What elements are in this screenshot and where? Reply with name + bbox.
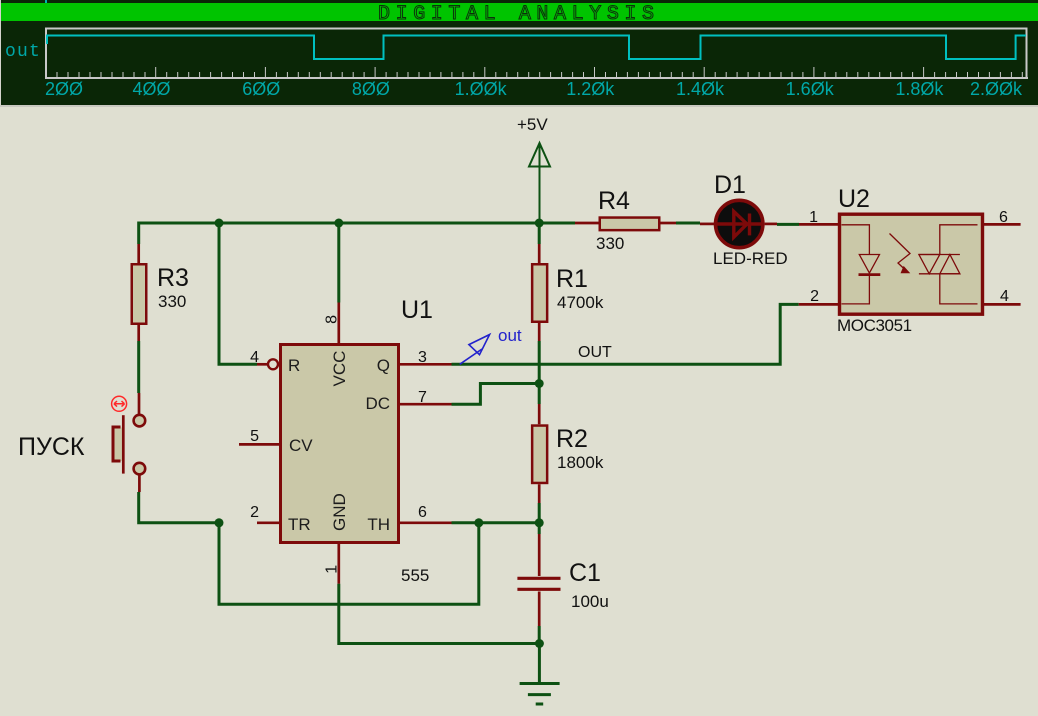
wire left column pin4 branch [219, 223, 257, 364]
wire rail to R4 [575, 222, 599, 225]
svg-text:TH: TH [367, 515, 390, 534]
resistor R3 [132, 264, 147, 324]
svg-text:1.8Øk: 1.8Øk [895, 79, 944, 99]
svg-text:8ØØ: 8ØØ [352, 79, 390, 99]
scope panel background [0, 0, 1038, 106]
svg-text:1.2Øk: 1.2Øk [566, 79, 615, 99]
wire OUT (pin3 to U2 pin2) [452, 304, 799, 364]
wire R2 to TH node [538, 503, 541, 523]
resistor R3 pins [137, 244, 140, 341]
U1 pin 6 stub [399, 521, 452, 524]
svg-text:330: 330 [158, 292, 186, 311]
U1 pin 7 stub [399, 403, 452, 406]
svg-text:100u: 100u [571, 592, 609, 611]
button ПУСК body [114, 428, 124, 462]
svg-text:U1: U1 [401, 296, 433, 324]
node dot ground rail [535, 639, 544, 648]
svg-text:4700k: 4700k [557, 293, 604, 312]
svg-text:4: 4 [250, 349, 259, 366]
wire D1 to U2 pin1 [777, 223, 799, 226]
wire C1 to ground node [538, 626, 541, 644]
U2 internal light arrow [890, 234, 911, 273]
svg-text:2ØØ: 2ØØ [45, 79, 83, 99]
svg-text:1.6Øk: 1.6Øk [786, 79, 835, 99]
wire TH to R2 bottom [452, 521, 540, 524]
wire R4 to D1 [676, 222, 700, 225]
svg-text:out: out [498, 326, 522, 345]
wire R3 top [137, 222, 140, 245]
button ПУСК terminal bottom [134, 463, 146, 475]
resistor R2 pins [538, 404, 541, 503]
button top pin [138, 393, 141, 414]
resistor R2 [532, 426, 547, 483]
U2 internal triac [919, 225, 978, 304]
node dot rail-+5V/R1 [535, 219, 544, 228]
wire TR loop left/bottom [219, 523, 479, 605]
button ПУСК terminal top [134, 415, 146, 427]
wire R3 to button [137, 341, 140, 393]
svg-text:R1: R1 [556, 265, 588, 293]
svg-text:1: 1 [809, 209, 818, 226]
wire to ground symbol [538, 644, 541, 684]
node dot TR junction [215, 518, 224, 527]
capacitor C1 pins [538, 534, 541, 626]
svg-text:2: 2 [810, 288, 819, 305]
U1 pin 1 stub [337, 544, 340, 584]
svg-text:5: 5 [250, 428, 259, 445]
svg-text:GND: GND [330, 493, 349, 531]
U1 pin 8 wire [337, 223, 340, 303]
svg-text:6ØØ: 6ØØ [242, 79, 280, 99]
LED D1 internal symbol [716, 222, 763, 225]
U1 pin 4 stub and bubble [257, 363, 267, 366]
U2 internal LED cathode bar [859, 273, 881, 276]
svg-text:DIGITAL ANALYSIS: DIGITAL ANALYSIS [378, 3, 660, 26]
svg-text:TR: TR [288, 515, 311, 534]
node dot TH/R2/C1 [535, 518, 544, 527]
probe out arrow [460, 335, 490, 365]
U2 internal LED [842, 225, 880, 304]
scope axis labels [45, 79, 1023, 99]
svg-text:1: 1 [324, 565, 341, 574]
wire DC to R1/R2 node [452, 384, 540, 405]
wire top rail [139, 222, 575, 225]
U2 pin 4 stub [983, 303, 1021, 306]
IC U1 555 body [281, 345, 399, 543]
U2 pin 6 stub [983, 223, 1021, 226]
svg-text:330: 330 [596, 234, 624, 253]
svg-text:4: 4 [1000, 288, 1009, 305]
svg-text:+5V: +5V [517, 115, 548, 134]
scope plot frame [46, 29, 1027, 79]
svg-text:Q: Q [377, 356, 390, 375]
svg-text:R: R [288, 356, 300, 375]
svg-text:R3: R3 [157, 264, 189, 292]
U2 pin 2 stub [799, 303, 839, 306]
wire R1 column [538, 223, 541, 244]
scope axis line [45, 77, 1028, 79]
svg-text:DC: DC [365, 394, 390, 413]
svg-text:LED-RED: LED-RED [713, 249, 788, 268]
resistor R1 pins [538, 244, 541, 341]
svg-text:555: 555 [401, 566, 429, 585]
button interactive marker [112, 396, 127, 411]
U1 pin 8 stub [337, 303, 340, 344]
scope trace out [47, 36, 1026, 60]
svg-text:2: 2 [250, 504, 259, 521]
svg-text:3: 3 [418, 349, 427, 366]
U1 pin 3 stub [399, 363, 452, 366]
resistor R1 [532, 264, 547, 322]
svg-text:OUT: OUT [578, 344, 612, 361]
capacitor C1 plates [517, 578, 560, 589]
svg-text:C1: C1 [569, 559, 601, 587]
scope top edge tick [45, 0, 47, 3]
U1 pin 2 stub [257, 521, 279, 524]
svg-text:1800k: 1800k [557, 453, 604, 472]
node dot rail-R3R column [215, 219, 224, 228]
button bottom pin [138, 474, 141, 492]
LED D1 pin right [765, 223, 777, 226]
scope title bar [1, 3, 1038, 21]
svg-text:R2: R2 [556, 425, 588, 453]
U1 pin 5 stub [239, 443, 279, 446]
svg-text:6: 6 [999, 209, 1008, 226]
svg-text:7: 7 [418, 389, 427, 406]
ground symbol [520, 684, 560, 705]
scope axis minor ticks [57, 72, 1022, 77]
wire button to TR [139, 492, 219, 523]
svg-text:2.ØØk: 2.ØØk [970, 79, 1023, 99]
svg-text:8: 8 [324, 315, 341, 324]
svg-text:1.ØØk: 1.ØØk [455, 79, 508, 99]
svg-text:4ØØ: 4ØØ [132, 79, 170, 99]
node dot TH loop [474, 518, 483, 527]
wire R1 bottom to DC node [538, 341, 541, 404]
LED D1 pin left [700, 223, 714, 226]
wire TH node to C1 [538, 523, 541, 534]
U1 pin 1 wire to ground rail [339, 584, 540, 644]
optocoupler U2 body [840, 214, 983, 314]
scope axis major ticks [46, 67, 924, 77]
svg-text:CV: CV [289, 436, 313, 455]
resistor R4 right pin [661, 222, 677, 225]
svg-text:ПУСК: ПУСК [18, 433, 85, 461]
svg-text:out: out [5, 42, 41, 62]
svg-text:MOC3051: MOC3051 [837, 316, 912, 335]
svg-text:6: 6 [418, 504, 427, 521]
U2 pin 1 stub [799, 223, 839, 226]
svg-text:R4: R4 [598, 187, 630, 215]
node dot rail-VCC column [334, 219, 343, 228]
svg-text:1.4Øk: 1.4Øk [676, 79, 725, 99]
resistor R4 [600, 218, 660, 231]
svg-text:VCC: VCC [330, 351, 349, 387]
node dot DC junction [535, 379, 544, 388]
svg-text:U2: U2 [838, 185, 870, 213]
power +5V arrow symbol [529, 143, 550, 223]
LED D1 body [716, 200, 763, 247]
svg-text:D1: D1 [714, 171, 746, 199]
